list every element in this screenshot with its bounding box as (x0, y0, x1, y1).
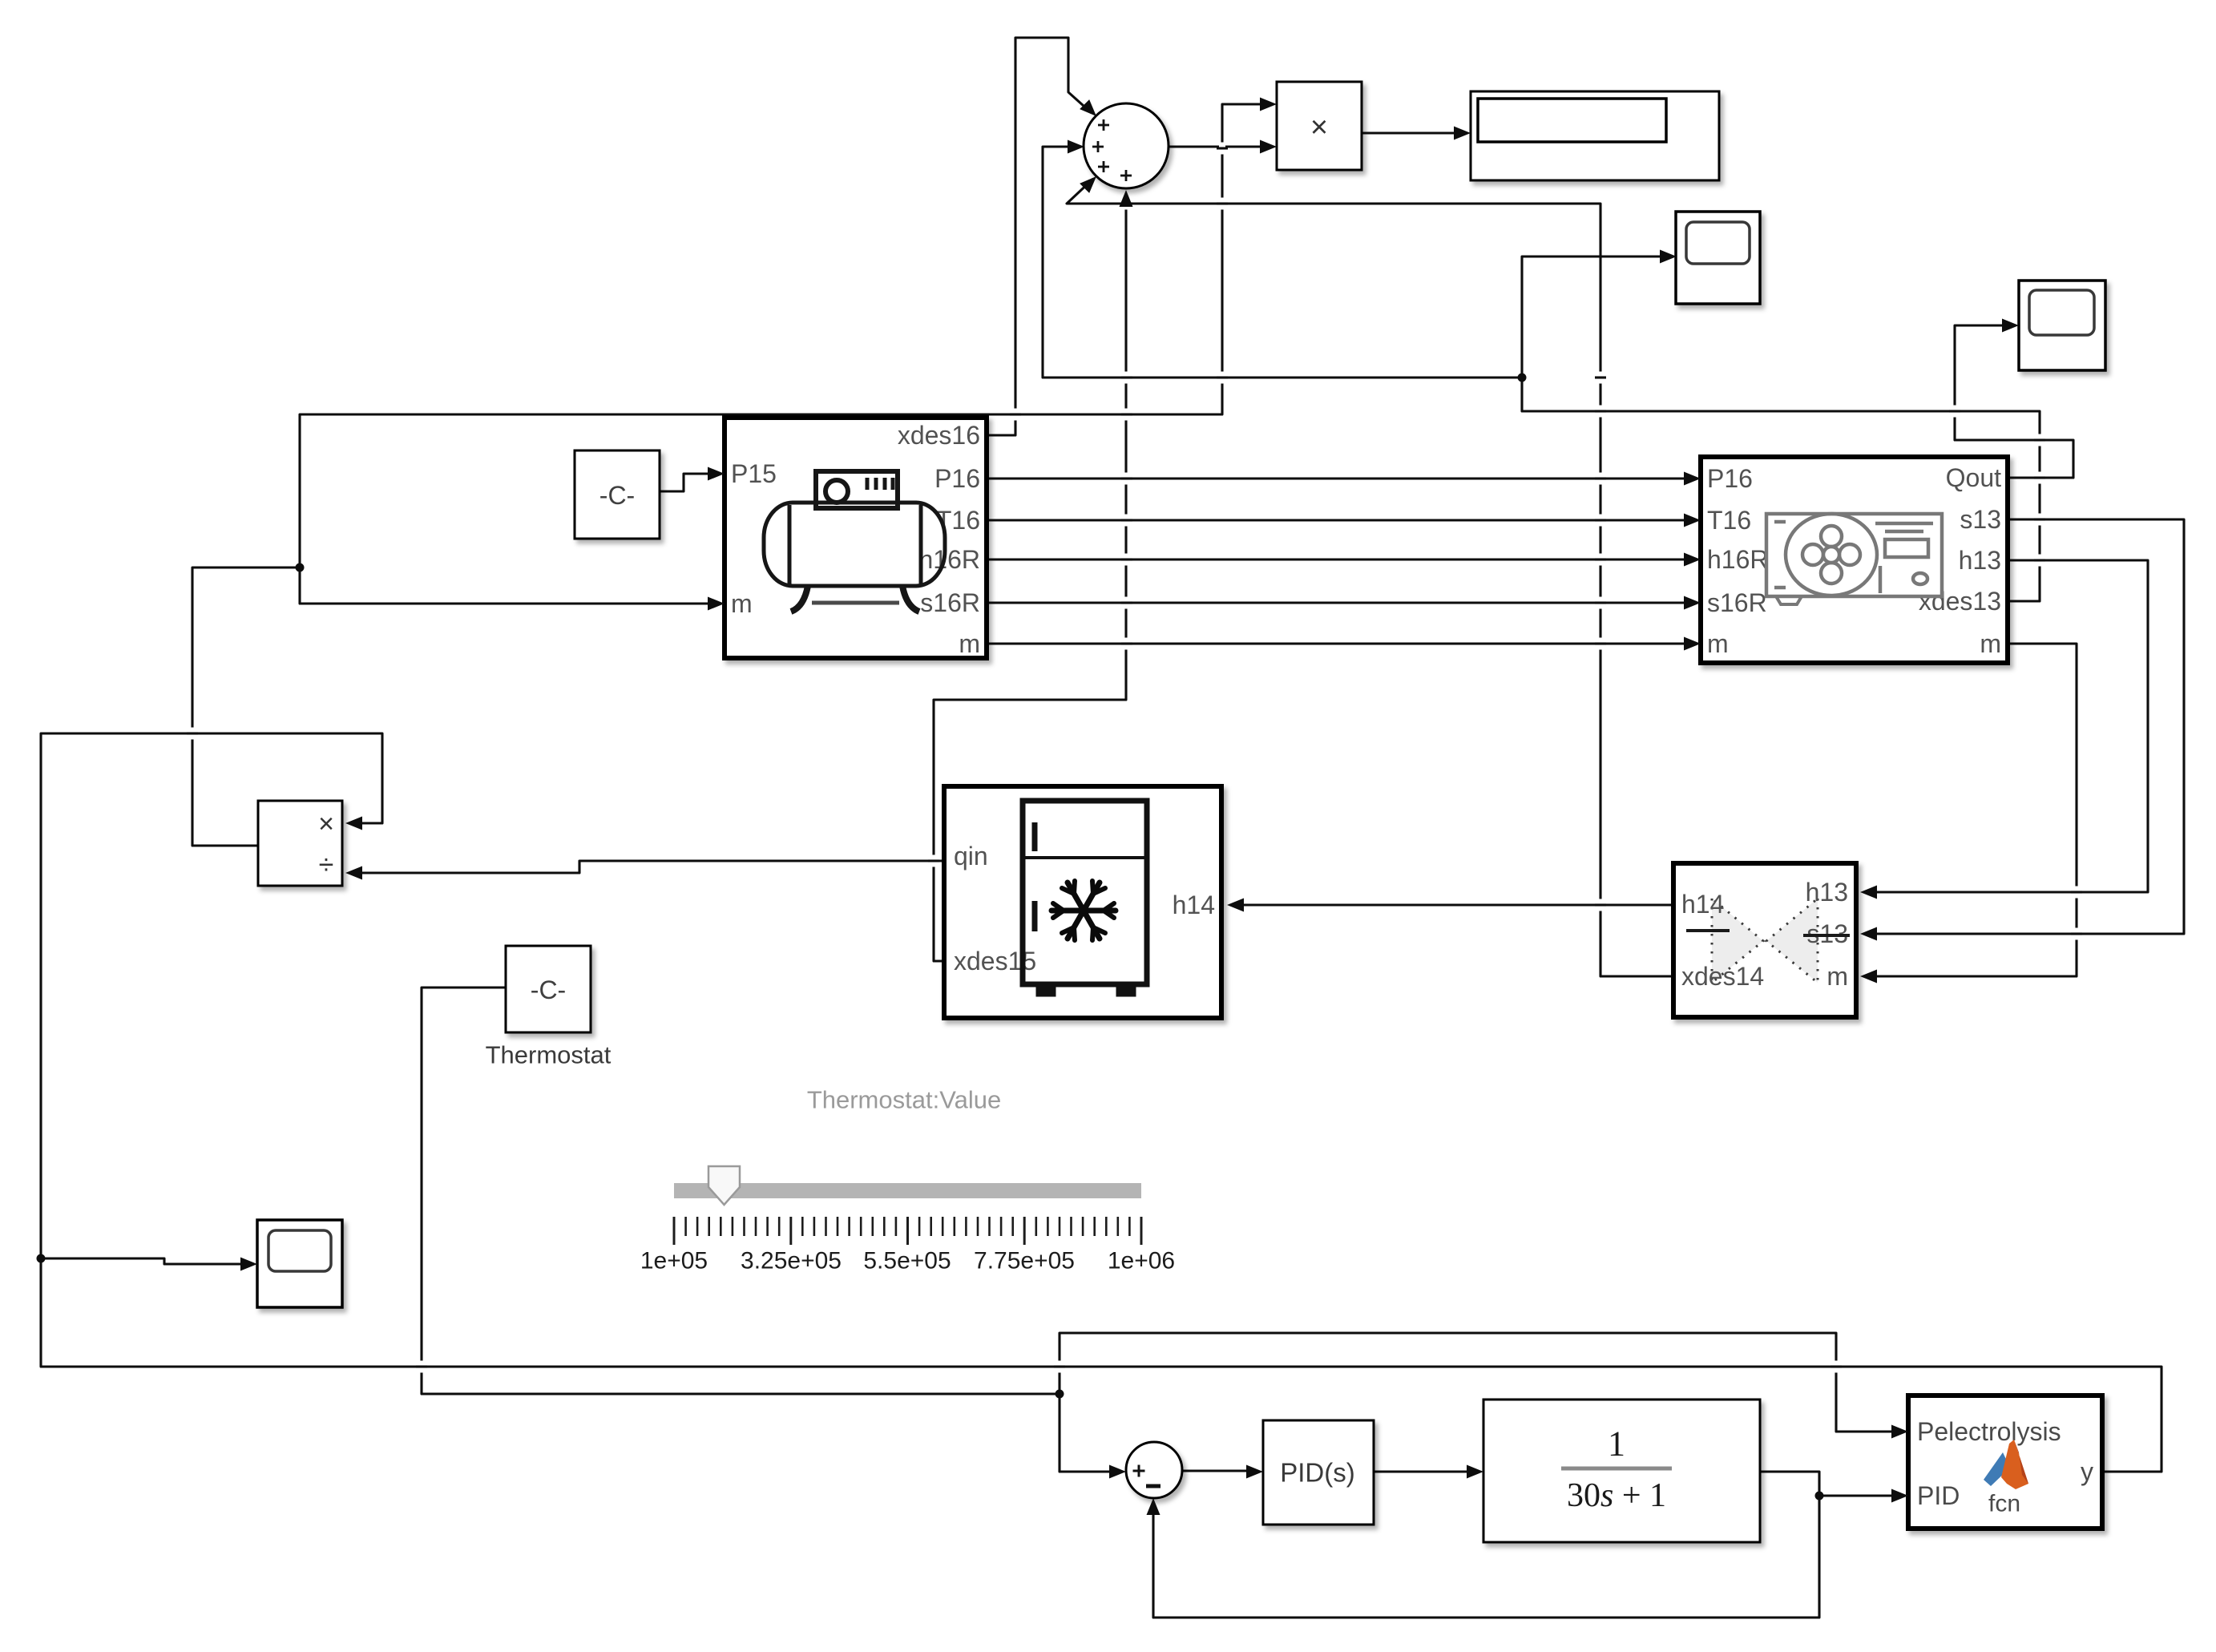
svg-text:P16: P16 (934, 464, 980, 493)
svg-text:3.25e+05: 3.25e+05 (741, 1248, 842, 1274)
svg-text:h16R: h16R (919, 545, 981, 574)
svg-text:1e+05: 1e+05 (640, 1248, 708, 1274)
svg-text:h14: h14 (1173, 891, 1215, 919)
svg-text:T16: T16 (1707, 506, 1751, 535)
svg-text:-C-: -C- (531, 975, 566, 1004)
svg-text:Thermostat: Thermostat (486, 1041, 612, 1069)
svg-text:h16R: h16R (1707, 545, 1769, 574)
svg-text:h14: h14 (1681, 890, 1724, 919)
svg-text:m: m (959, 629, 980, 658)
svg-text:×: × (1310, 111, 1328, 144)
svg-text:Pelectrolysis: Pelectrolysis (1917, 1417, 2061, 1446)
svg-text:÷: ÷ (319, 850, 334, 880)
svg-text:×: × (318, 809, 334, 839)
svg-text:xdes13: xdes13 (1919, 587, 2001, 616)
svg-text:m: m (1980, 629, 2001, 658)
svg-text:7.75e+05: 7.75e+05 (974, 1248, 1075, 1274)
svg-text:m: m (731, 589, 753, 618)
svg-text:m: m (1826, 962, 1848, 991)
svg-text:1: 1 (1608, 1424, 1625, 1464)
svg-text:xdes16: xdes16 (898, 421, 980, 450)
svg-text:P15: P15 (731, 459, 777, 488)
svg-text:h13: h13 (1959, 546, 2001, 575)
svg-text:m: m (1707, 629, 1729, 658)
svg-text:-C-: -C- (599, 481, 635, 510)
svg-text:P16: P16 (1707, 464, 1753, 493)
svg-text:s13: s13 (1960, 505, 2001, 534)
svg-text:xdes14: xdes14 (1681, 962, 1764, 991)
svg-text:Thermostat:Value: Thermostat:Value (807, 1086, 1001, 1114)
svg-text:qin: qin (954, 842, 988, 870)
svg-text:30s + 1: 30s + 1 (1567, 1477, 1666, 1514)
svg-text:y: y (2081, 1457, 2093, 1486)
svg-text:fcn: fcn (1988, 1491, 2020, 1517)
svg-text:h13: h13 (1806, 878, 1848, 907)
svg-text:s16R: s16R (920, 588, 980, 617)
svg-text:Qout: Qout (1946, 463, 2001, 492)
svg-text:1e+06: 1e+06 (1108, 1248, 1175, 1274)
svg-text:PID(s): PID(s) (1280, 1458, 1355, 1488)
svg-text:s16R: s16R (1707, 588, 1767, 617)
svg-text:PID: PID (1917, 1481, 1960, 1510)
svg-text:5.5e+05: 5.5e+05 (863, 1248, 951, 1274)
